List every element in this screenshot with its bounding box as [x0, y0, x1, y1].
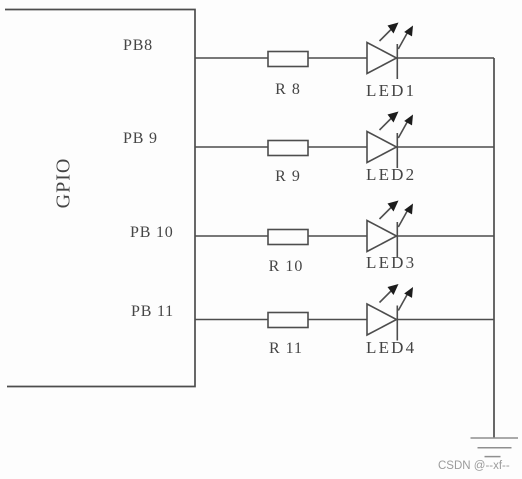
svg-text:R 9: R 9	[275, 168, 301, 185]
svg-text:PB 11: PB 11	[131, 303, 174, 320]
svg-text:PB 10: PB 10	[130, 224, 174, 241]
svg-text:R 8: R 8	[275, 81, 301, 98]
wire PB10 to R10	[195, 235, 268, 237]
wire R8 to LED1	[308, 57, 367, 59]
svg-text:LED4: LED4	[366, 338, 416, 357]
wire PB11 to R11	[195, 319, 268, 321]
svg-text:CSDN @--xf--: CSDN @--xf--	[438, 460, 510, 472]
wire LED3 to bus	[397, 235, 494, 237]
svg-text:GPIO: GPIO	[53, 158, 75, 209]
svg-text:R 10: R 10	[269, 258, 304, 275]
wire LED1 to bus	[397, 57, 494, 59]
wire PB8 to R8	[195, 57, 268, 59]
resistor R10	[268, 230, 308, 245]
resistor R11	[268, 313, 308, 328]
svg-text:LED1: LED1	[366, 81, 416, 100]
LED LED2	[367, 112, 413, 169]
resistor R8	[268, 52, 308, 67]
LED LED3	[367, 201, 413, 258]
GPIO block U1 (top, right and bottom edges)	[5, 10, 195, 387]
wire R11 to LED4	[308, 319, 367, 321]
wire PB9 to R9	[195, 146, 268, 148]
wire R9 to LED2	[308, 146, 367, 148]
LED LED4	[367, 284, 413, 341]
svg-text:PB8: PB8	[123, 37, 153, 54]
svg-text:LED3: LED3	[366, 253, 416, 272]
wire LED4 to bus	[397, 319, 494, 321]
wire LED2 to bus	[397, 146, 494, 148]
LED LED1	[367, 23, 413, 80]
ground	[471, 438, 519, 457]
svg-text:R 11: R 11	[269, 340, 303, 357]
wire R10 to LED3	[308, 235, 367, 237]
svg-text:LED2: LED2	[366, 165, 416, 184]
wire right bus vertical	[493, 58, 495, 438]
resistor R9	[268, 141, 308, 156]
svg-text:PB 9: PB 9	[123, 130, 158, 147]
